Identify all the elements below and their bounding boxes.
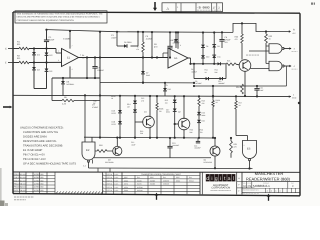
resistor R24b bbox=[241, 0, 243, 83]
vertical x213 to gnd bbox=[212, 86, 214, 96]
diode chain D17 D18 bbox=[174, 96, 176, 99]
wire y168 bbox=[89, 167, 253, 170]
svg-text:.01MF: .01MF bbox=[49, 39, 55, 42]
svg-text:C: C bbox=[292, 185, 294, 188]
nand gate G1 bbox=[269, 44, 282, 54]
svg-text:10.6.69: 10.6.69 bbox=[21, 189, 27, 192]
svg-text:D8: D8 bbox=[206, 45, 208, 48]
svg-text:M-REC 868: M-REC 868 bbox=[34, 183, 43, 186]
gate E5 output stem bbox=[249, 160, 251, 168]
wire op-amp1 output bbox=[79, 57, 169, 59]
wire op-amp2 output bbox=[188, 57, 191, 59]
svg-text:UNLESS OTHERWISE INDICATED:: UNLESS OTHERWISE INDICATED: bbox=[20, 127, 64, 130]
svg-text:CORPORATION: CORPORATION bbox=[211, 187, 230, 190]
op-amp power pin bbox=[69, 31, 71, 49]
svg-text:6: 6 bbox=[80, 54, 81, 57]
transistor Q4 bbox=[210, 146, 220, 156]
svg-text:C9: C9 bbox=[195, 80, 197, 83]
wire to node A bbox=[233, 23, 289, 32]
page edge smudges bbox=[0, 168, 2, 206]
svg-text:CAPACITORS ARE 100V 5%: CAPACITORS ARE 100V 5% bbox=[23, 131, 59, 134]
left edge arrow bbox=[3, 106, 11, 108]
chart up arrow bbox=[156, 195, 158, 200]
svg-text:CS: CS bbox=[248, 185, 252, 188]
gnd bus y95.5 bbox=[13, 95, 291, 96]
mid bus y82.5 bbox=[55, 82, 196, 84]
wire bottom of ladder bbox=[34, 88, 47, 90]
stubs above parts table bbox=[97, 168, 99, 172]
svg-text:2N3639: 2N3639 bbox=[163, 179, 169, 182]
svg-text:PIN 4 ON E1=-15V: PIN 4 ON E1=-15V bbox=[23, 158, 46, 161]
svg-text:D20: D20 bbox=[202, 120, 205, 123]
svg-text:D9: D9 bbox=[217, 45, 219, 48]
revision table bbox=[162, 3, 223, 12]
svg-text:R7: R7 bbox=[137, 46, 139, 49]
svg-text:PIN 7 ON E1=+5V: PIN 7 ON E1=+5V bbox=[23, 154, 45, 157]
resistor R18 bbox=[95, 150, 97, 152]
diode D11 bbox=[175, 32, 177, 39]
svg-text:6534: 6534 bbox=[124, 186, 128, 189]
capacitor C7 bbox=[94, 58, 96, 67]
svg-text:.1MF: .1MF bbox=[260, 89, 264, 92]
diode D10 bbox=[164, 83, 166, 88]
svg-text:READER/WRITER (868): READER/WRITER (868) bbox=[246, 177, 291, 182]
svg-text:2.2K: 2.2K bbox=[62, 103, 67, 106]
svg-text:M-REC 868: M-REC 868 bbox=[34, 186, 43, 189]
parts list table bbox=[102, 172, 104, 194]
svg-text:IN645: IN645 bbox=[137, 179, 142, 182]
svg-text:C12: C12 bbox=[131, 141, 134, 144]
top +V bus bbox=[47, 30, 233, 33]
svg-text:4: 4 bbox=[72, 68, 73, 71]
svg-text:g: g bbox=[215, 176, 218, 182]
svg-text:R25: R25 bbox=[227, 60, 230, 63]
diode D5 bbox=[117, 45, 124, 47]
middle blank box hatch bbox=[56, 191, 58, 193]
svg-text:C10: C10 bbox=[218, 80, 221, 83]
svg-text:GND: GND bbox=[292, 97, 297, 100]
svg-text:3: 3 bbox=[58, 59, 59, 62]
svg-text:8: 8 bbox=[180, 44, 181, 47]
svg-text:7: 7 bbox=[72, 45, 73, 48]
diode chain D8 D10 bbox=[202, 33, 204, 45]
transistor Q3 bbox=[113, 146, 122, 155]
cap C3 drop bbox=[116, 32, 118, 46]
wire junction down 87 bbox=[86, 58, 88, 79]
svg-text:a: a bbox=[228, 176, 231, 182]
svg-text:D662: D662 bbox=[124, 179, 128, 182]
diode on wire y63.8 bbox=[218, 62, 221, 65]
diode D2 bbox=[33, 55, 35, 67]
svg-text:R18: R18 bbox=[99, 144, 102, 147]
diode D7 bbox=[142, 58, 144, 72]
wire y78.6 with diodes bbox=[193, 64, 195, 79]
title block up arrow bbox=[268, 196, 270, 201]
nand gate G2 bbox=[269, 61, 282, 71]
svg-text:470: 470 bbox=[235, 38, 238, 41]
long vertical x100 bbox=[99, 32, 101, 138]
svg-text:470: 470 bbox=[234, 146, 237, 149]
resistor R22 bbox=[241, 23, 243, 34]
wire y78 bbox=[52, 77, 100, 79]
svg-text:C14: C14 bbox=[194, 144, 197, 147]
svg-text:2N3009: 2N3009 bbox=[163, 183, 169, 186]
drawing border frame bbox=[13, 12, 300, 13]
svg-text:10.6.69: 10.6.69 bbox=[21, 183, 27, 186]
svg-text:E2: E2 bbox=[86, 148, 90, 152]
svg-text:IN914A: IN914A bbox=[137, 189, 144, 192]
bottom-left outside text bbox=[14, 196, 34, 198]
vertical x120 diodes D15 D16 bbox=[119, 96, 121, 110]
svg-text:750: 750 bbox=[200, 131, 203, 134]
input rail 1 with resistor R1 bbox=[13, 48, 19, 50]
svg-text:10.6.69: 10.6.69 bbox=[21, 176, 27, 179]
svg-text:PRINTED CIRCUIT REV: PRINTED CIRCUIT REV bbox=[243, 190, 259, 192]
svg-text:TRANSISTORS ARE DEC3639B: TRANSISTORS ARE DEC3639B bbox=[23, 145, 63, 148]
svg-text:10.6.69: 10.6.69 bbox=[21, 186, 27, 189]
conversion chart bbox=[199, 172, 201, 194]
svg-text:E5: E5 bbox=[247, 147, 251, 151]
cap C8 bbox=[169, 32, 171, 46]
diode D3 bbox=[46, 49, 48, 53]
svg-text:D662: D662 bbox=[146, 74, 150, 77]
svg-text:DIODES ARE D664: DIODES ARE D664 bbox=[23, 136, 47, 139]
cap C16 bbox=[256, 86, 258, 88]
svg-text:l: l bbox=[233, 176, 234, 182]
svg-text:CIRCUITS ARE PROPRIETARY IN NA: CIRCUITS ARE PROPRIETARY IN NATURE AND S… bbox=[17, 16, 101, 19]
svg-text:d: d bbox=[206, 176, 209, 182]
capacitor C13 bbox=[169, 138, 171, 146]
svg-text:.01MMF: .01MMF bbox=[97, 69, 105, 72]
svg-text:10.6.69: 10.6.69 bbox=[21, 179, 27, 182]
svg-text:750: 750 bbox=[159, 110, 162, 113]
transistor Q5 bbox=[239, 60, 251, 72]
svg-text:D670: D670 bbox=[124, 183, 128, 186]
svg-text:47MMF: 47MMF bbox=[92, 106, 99, 109]
svg-text:.01MF: .01MF bbox=[111, 37, 117, 40]
svg-text:M-REC 868: M-REC 868 bbox=[34, 189, 43, 192]
op-amp E1 (first) bbox=[62, 49, 79, 67]
transistor Q1 bbox=[149, 96, 151, 117]
diode D1 bbox=[33, 49, 35, 53]
svg-text:TRANSISTOR & DIODE CONVERSION: TRANSISTOR & DIODE CONVERSION CHART bbox=[141, 173, 182, 176]
svg-text:E1: E1 bbox=[174, 57, 178, 60]
svg-text:D10: D10 bbox=[168, 88, 171, 91]
narrow cell column bbox=[237, 180, 242, 182]
resistor R23 bbox=[265, 32, 267, 35]
bus y137.5 bbox=[84, 136, 215, 139]
svg-text:RESISTORS ARE 1/4W 5%: RESISTORS ARE 1/4W 5% bbox=[23, 140, 57, 143]
svg-text:100: 100 bbox=[165, 101, 168, 104]
svg-text:IN754A: IN754A bbox=[137, 186, 144, 189]
svg-text:2: 2 bbox=[58, 50, 59, 53]
wire into E5 bbox=[236, 135, 248, 137]
svg-text:MAYNARD. MASSACHUSETTS: MAYNARD. MASSACHUSETTS bbox=[210, 190, 231, 192]
left signature table bbox=[13, 174, 55, 176]
input rail 2 with resistor R2 bbox=[13, 62, 19, 64]
svg-text:2: 2 bbox=[238, 190, 239, 193]
svg-text:5408868-0-1: 5408868-0-1 bbox=[253, 184, 270, 188]
capacitor C1 bbox=[46, 30, 48, 40]
gate E5 bbox=[243, 141, 257, 159]
svg-text:.001MMF: .001MMF bbox=[172, 144, 179, 147]
svg-text:D5 D664: D5 D664 bbox=[124, 41, 131, 44]
op-amp2 power pin bbox=[177, 32, 179, 48]
note box bbox=[15, 11, 107, 23]
svg-text:R24: R24 bbox=[236, 86, 239, 89]
svg-text:OF A DEC NUMBER HOLDING TAPE S: OF A DEC NUMBER HOLDING TAPE SUTS bbox=[23, 163, 76, 166]
svg-text:DEC3009B: DEC3009B bbox=[105, 161, 114, 164]
svg-text:C: C bbox=[5, 48, 7, 51]
capacitor C14 bbox=[197, 138, 199, 141]
column x199: R18, D19, D20 bbox=[198, 96, 200, 98]
transistor Q2 bbox=[183, 96, 185, 119]
resistor R6 bbox=[142, 32, 144, 42]
svg-text:THIS SCHEMATIC IS FURNISHED ON: THIS SCHEMATIC IS FURNISHED ONLY FOR TES… bbox=[17, 12, 104, 15]
svg-text:△: △ bbox=[167, 6, 170, 10]
svg-text:IN914: IN914 bbox=[189, 179, 194, 182]
svg-text:- B -9880: - B -9880 bbox=[197, 5, 210, 9]
svg-text:IN670: IN670 bbox=[137, 183, 142, 186]
column x213 resistor R16A bbox=[212, 96, 214, 100]
diode chain D9 D11 bbox=[213, 33, 215, 45]
svg-text:i: i bbox=[220, 176, 221, 182]
svg-text:MANCHESTER: MANCHESTER bbox=[255, 171, 284, 176]
svg-text:COPYRIGHT 1969 BY DIGITAL EQUI: COPYRIGHT 1969 BY DIGITAL EQUIPMENT CORP… bbox=[17, 19, 75, 22]
svg-text:C1458P: C1458P bbox=[63, 38, 71, 41]
svg-text:D10: D10 bbox=[206, 56, 209, 59]
gate E2 bbox=[82, 142, 95, 160]
resistor R5 bbox=[51, 96, 53, 101]
svg-text:E1: E1 bbox=[67, 57, 71, 60]
op-amp E1 (second) bbox=[168, 48, 188, 68]
feedback wire bbox=[286, 66, 288, 86]
diode D6 bbox=[62, 78, 64, 81]
bottom strip outline bbox=[13, 171, 300, 173]
wire y157.7 bbox=[94, 157, 211, 159]
op-amp pin 4 bbox=[69, 66, 71, 78]
svg-text:DEC3639C: DEC3639C bbox=[204, 161, 213, 164]
svg-text:D11: D11 bbox=[170, 39, 173, 42]
capacitor C6 bbox=[221, 32, 223, 39]
svg-text:C4: C4 bbox=[191, 68, 193, 71]
svg-text:D17: D17 bbox=[166, 108, 169, 111]
svg-text:2: 2 bbox=[244, 144, 245, 147]
svg-text:D670: D670 bbox=[112, 112, 116, 115]
svg-text:i: i bbox=[211, 176, 212, 182]
svg-text:NORMAL: NORMAL bbox=[67, 83, 75, 86]
vertical x135 diodes bbox=[134, 96, 136, 101]
svg-text:D664: D664 bbox=[176, 179, 180, 182]
svg-text:10.6.69: 10.6.69 bbox=[21, 173, 27, 176]
wire y63.8 bbox=[191, 63, 225, 65]
bold down arrow bbox=[154, 2, 156, 9]
svg-text:M-REC 868: M-REC 868 bbox=[34, 173, 43, 176]
svg-text:M-REC 868: M-REC 868 bbox=[34, 179, 43, 182]
vertical x152 bbox=[151, 32, 153, 58]
resistor R21 bbox=[230, 138, 232, 141]
diode D4 bbox=[46, 56, 48, 69]
svg-text:D19: D19 bbox=[202, 112, 205, 115]
svg-text:M-REC 868: M-REC 868 bbox=[34, 176, 43, 179]
column x157 resistor R50B bbox=[156, 96, 158, 103]
svg-text:D670: D670 bbox=[112, 123, 116, 126]
svg-text:D11: D11 bbox=[217, 56, 220, 59]
DEC logo block bbox=[201, 172, 203, 194]
vertical from op2 output bbox=[190, 58, 192, 64]
resistor R27 feed to E5 bbox=[235, 96, 237, 101]
vertical feeds to gate E2 bbox=[84, 95, 86, 142]
svg-text:A: A bbox=[293, 29, 295, 32]
svg-text:D664: D664 bbox=[124, 189, 128, 192]
svg-text:E1 IS MC1458P: E1 IS MC1458P bbox=[23, 149, 42, 152]
corner mark top right bbox=[311, 2, 315, 4]
